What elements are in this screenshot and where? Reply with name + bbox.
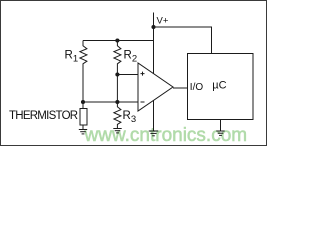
op-amp U1 <box>138 63 173 111</box>
resistor R2 <box>114 41 121 75</box>
ground under microcontroller <box>216 131 224 135</box>
op-amp minus sign <box>141 101 145 103</box>
junction node R2 top <box>115 38 119 42</box>
junction node thermistor top <box>81 100 85 104</box>
wire divider top rail <box>83 40 154 42</box>
svg-text:THERMISTOR: THERMISTOR <box>9 110 78 122</box>
wire op-amp output <box>173 87 188 89</box>
wire inverting input <box>83 101 139 103</box>
wire R2 bottom to R3 top <box>116 75 118 103</box>
wire op-amp ground stub <box>153 100 155 130</box>
resistor R1 <box>80 41 87 103</box>
border frame <box>1 1 267 146</box>
ground under thermistor <box>79 130 87 134</box>
svg-text:www.cntronics.com: www.cntronics.com <box>84 125 248 146</box>
junction node R3 top <box>115 100 119 104</box>
junction node V+ <box>151 25 155 29</box>
svg-text:V+: V+ <box>157 16 169 27</box>
svg-text:I/O: I/O <box>190 82 204 93</box>
microcontroller box <box>188 54 254 120</box>
wire V+ stub and op-amp power vertical <box>153 13 155 75</box>
ground under R3 <box>113 129 121 133</box>
resistor R3 <box>114 102 121 128</box>
op-amp plus sign <box>141 72 145 76</box>
ground under op-amp <box>149 131 159 136</box>
svg-text:µC: µC <box>212 79 226 91</box>
junction node R2 bottom <box>115 72 119 76</box>
wire top rail to microcontroller <box>154 27 212 54</box>
wire microcontroller ground stub <box>220 119 222 131</box>
wire noninverting input <box>117 74 138 76</box>
thermistor leads <box>82 102 84 129</box>
thermistor body <box>80 109 87 126</box>
